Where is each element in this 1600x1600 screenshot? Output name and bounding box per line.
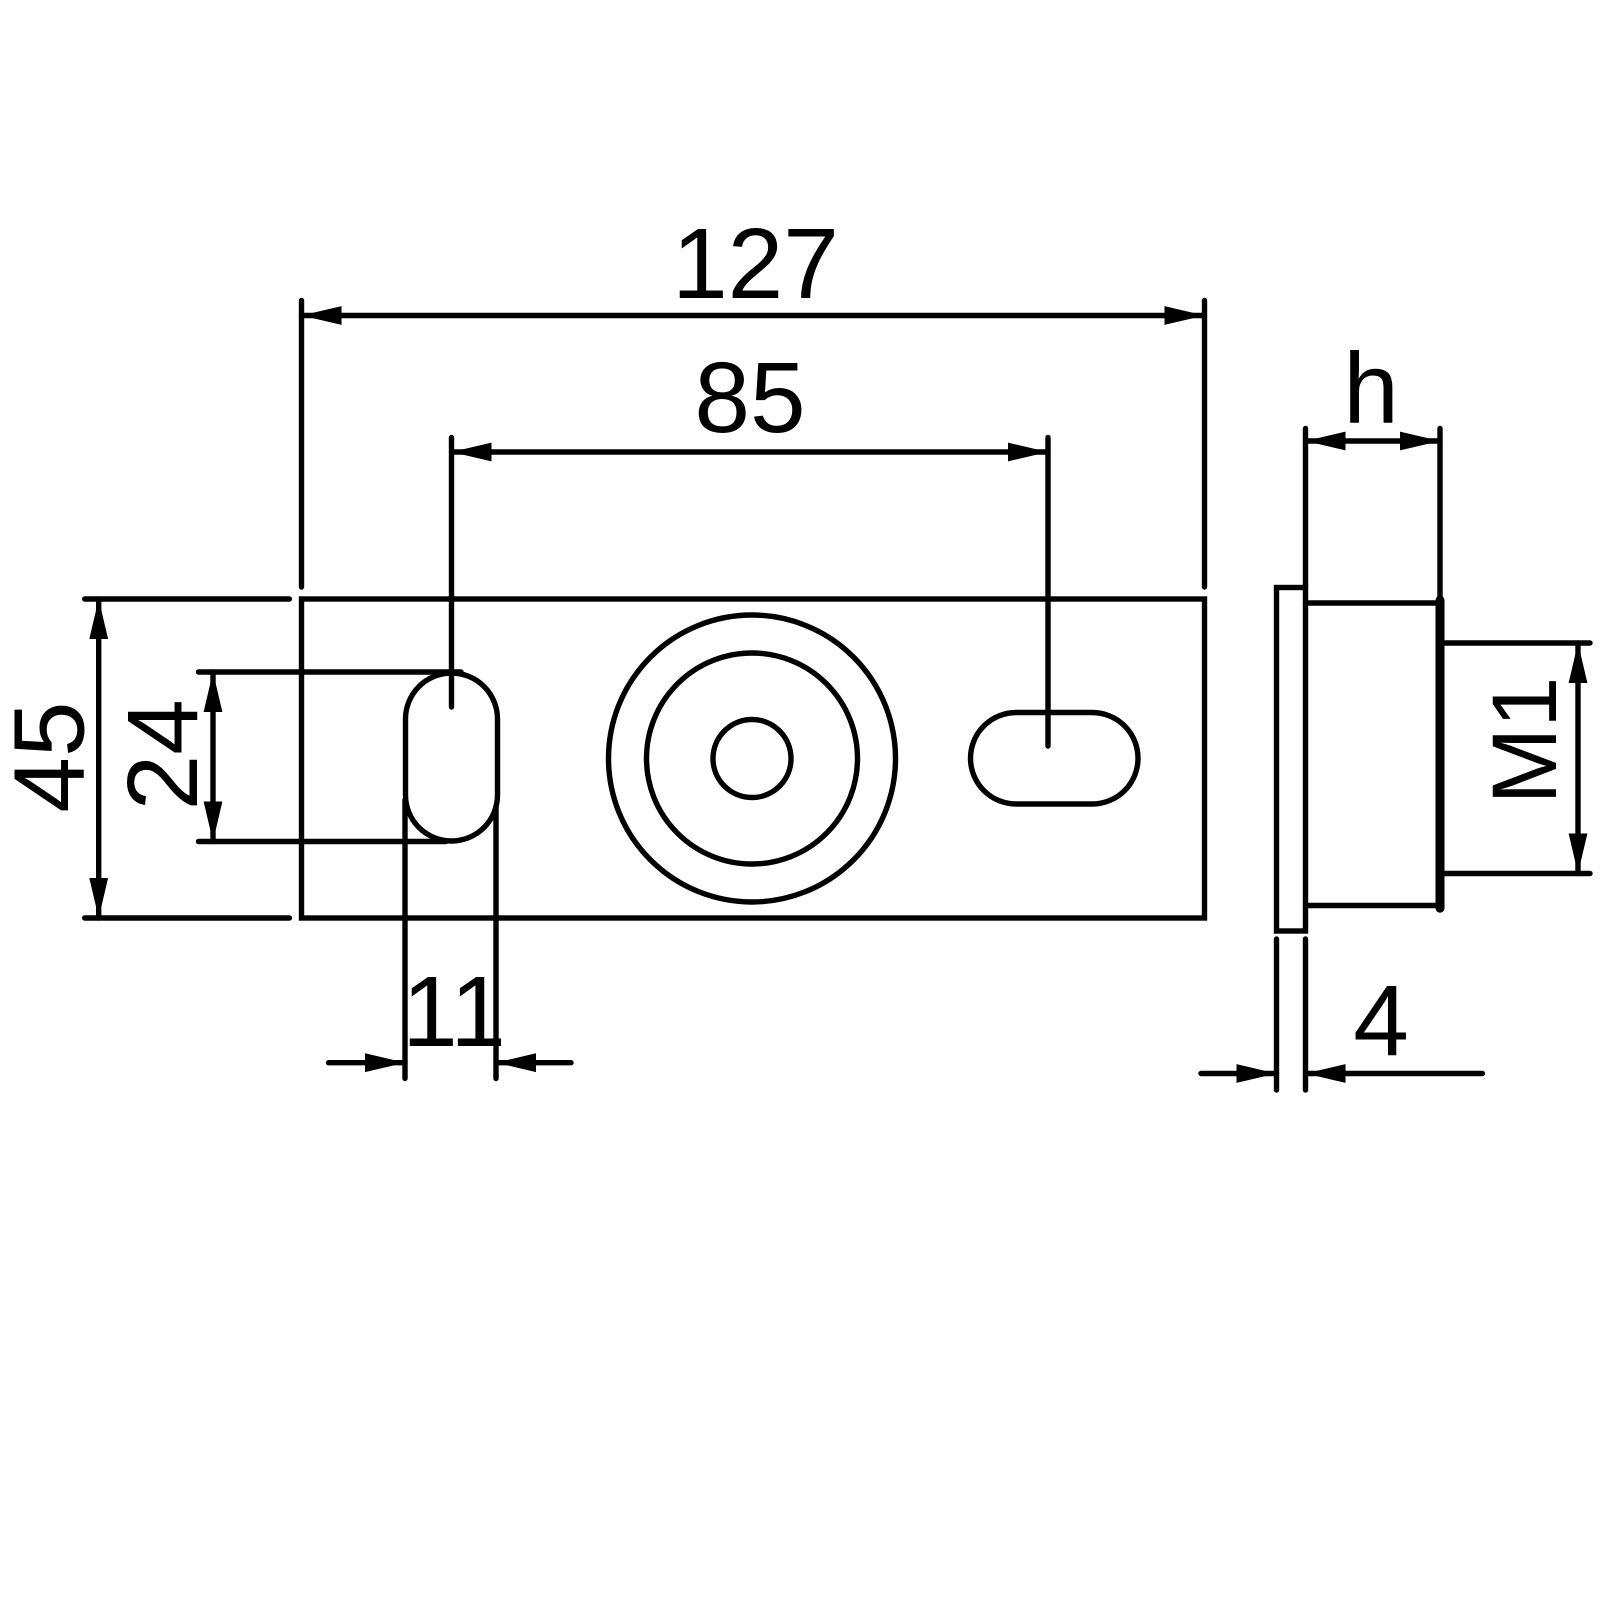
svg-text:11: 11: [402, 956, 506, 1068]
svg-text:127: 127: [672, 208, 839, 320]
svg-text:M1: M1: [1474, 677, 1576, 805]
svg-text:45: 45: [0, 701, 106, 812]
svg-text:85: 85: [694, 342, 805, 454]
svg-text:4: 4: [1353, 965, 1409, 1077]
svg-text:24: 24: [107, 699, 219, 810]
svg-text:h: h: [1343, 333, 1399, 445]
